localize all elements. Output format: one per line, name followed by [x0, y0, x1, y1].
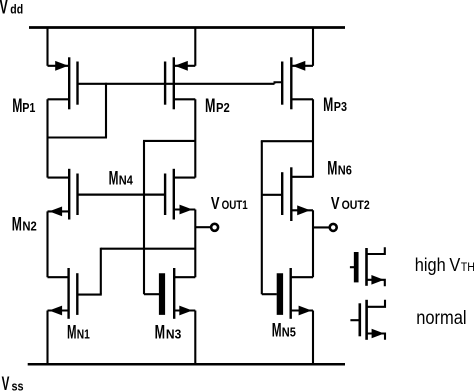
- svg-text:P3: P3: [334, 99, 348, 114]
- svg-text:M: M: [272, 321, 282, 341]
- label high VTH: [415, 254, 474, 275]
- svg-text:V: V: [331, 194, 340, 214]
- svg-text:TH: TH: [461, 262, 474, 275]
- wire MN6 source to VOUT2 and MN5 drain: [312, 210, 314, 277]
- transistor MN3 (NMOS, high-Vth thick gate): [162, 268, 195, 319]
- svg-text:V: V: [2, 374, 10, 392]
- svg-text:OUT1: OUT1: [222, 199, 248, 212]
- svg-text:M: M: [327, 159, 337, 179]
- legend symbol: high-Vth transistor: [350, 247, 385, 286]
- label Vdd: [0, 0, 23, 18]
- svg-text:M: M: [323, 96, 333, 116]
- transistor MP1 (PMOS): [48, 57, 78, 109]
- transistor MP2 (PMOS): [165, 57, 195, 109]
- label MN2: [12, 215, 37, 235]
- wire MN1 source to Vss: [46, 311, 48, 365]
- label MN1: [67, 323, 90, 344]
- wire MN1 gate loop to VOUT1 node: [78, 248, 196, 295]
- svg-text:V: V: [449, 254, 460, 275]
- svg-text:dd: dd: [10, 2, 23, 16]
- svg-text:N3: N3: [166, 327, 181, 341]
- wire Vdd to MP3 source: [312, 28, 314, 66]
- transistor MN5 (NMOS, high-Vth thick gate): [280, 268, 313, 319]
- svg-text:OUT2: OUT2: [342, 199, 370, 212]
- wire VOUT2 stub: [313, 226, 330, 228]
- wire MN4 source to VOUT1 and MN3 drain: [194, 210, 196, 278]
- svg-text:M: M: [12, 215, 22, 235]
- label VOUT1: [211, 194, 248, 214]
- power rail Vss: [28, 363, 345, 366]
- wire common PMOS gate bus MP1-MP2-MP3: [78, 83, 275, 85]
- wire MN5 source to Vss: [312, 311, 314, 365]
- label MP1: [12, 96, 36, 116]
- wire MN3 source to Vss: [194, 311, 196, 365]
- svg-text:M: M: [12, 96, 22, 116]
- label MN6: [327, 159, 352, 179]
- label VOUT2: [331, 194, 370, 214]
- wire MP2 drain to MN4 drain: [194, 99, 196, 177]
- svg-text:V: V: [211, 194, 220, 214]
- wire MN2 source to MN1 drain: [46, 211, 48, 277]
- svg-text:M: M: [109, 169, 119, 189]
- wire gate bus jog into MP3 gate: [275, 82, 283, 84]
- transistor MN2 (NMOS): [48, 169, 78, 220]
- transistor MN1 (NMOS): [48, 268, 78, 319]
- svg-text:M: M: [67, 323, 76, 344]
- label MN4: [109, 169, 134, 189]
- transistor MN4 (NMOS): [165, 169, 195, 220]
- wire MP1 diode connection (gate bus down to drain): [47, 83, 108, 138]
- wire MP3 drain branch to MN6/MN5 gates: [261, 141, 313, 294]
- label MP2: [205, 95, 230, 116]
- svg-text:N5: N5: [282, 325, 296, 340]
- wire MP2 drain branch to MN3 gate: [143, 141, 195, 294]
- svg-text:N4: N4: [119, 173, 133, 188]
- transistor MN6 (NMOS): [282, 167, 313, 221]
- node VOUT1 terminal: [211, 224, 218, 231]
- power rail Vdd: [29, 26, 345, 29]
- svg-text:P2: P2: [216, 100, 230, 115]
- node VOUT2 terminal: [330, 224, 337, 231]
- wire MN2 gate to MN4 gate: [78, 194, 166, 196]
- svg-text:normal: normal: [416, 307, 466, 329]
- wire VOUT1 stub: [195, 226, 211, 228]
- svg-text:N2: N2: [22, 219, 37, 234]
- label MN5: [272, 321, 296, 341]
- svg-text:M: M: [155, 322, 165, 343]
- label Vss: [2, 374, 24, 392]
- svg-text:N6: N6: [338, 163, 352, 178]
- svg-text:N1: N1: [77, 329, 91, 342]
- label MP3: [323, 96, 347, 116]
- wire Vdd to MP1 source: [46, 28, 48, 66]
- svg-text:V: V: [0, 0, 8, 18]
- svg-text:P1: P1: [22, 100, 36, 115]
- transistor MP3 (PMOS): [282, 57, 313, 109]
- legend symbol: normal transistor: [350, 300, 385, 340]
- wire MP3 drain to MN6 drain: [312, 99, 314, 177]
- wire Vdd to MP2 source: [194, 28, 196, 66]
- svg-text:M: M: [205, 95, 215, 116]
- svg-text:high: high: [415, 254, 446, 275]
- svg-text:ss: ss: [12, 379, 24, 392]
- label MN3: [155, 322, 182, 343]
- wire MP1 drain to MN2 drain: [46, 99, 48, 177]
